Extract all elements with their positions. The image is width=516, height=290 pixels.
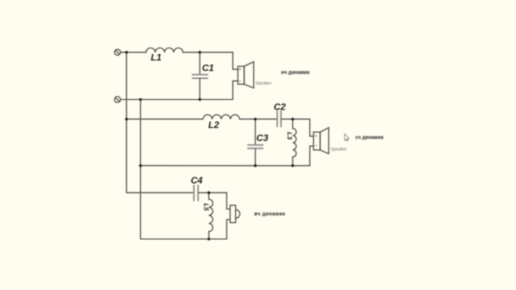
node minus feed bbox=[139, 98, 142, 101]
node C3 bottom bbox=[254, 164, 257, 167]
capacitor C2 bbox=[277, 111, 281, 127]
wire L1 to speaker branch bbox=[183, 51, 233, 53]
node middle bottom left bbox=[139, 164, 142, 167]
wire speaker2 bottom stub bbox=[310, 146, 314, 166]
terminal input - bbox=[115, 97, 121, 103]
svg-text:нч динамик: нч динамик bbox=[281, 70, 310, 76]
node L5 bottom bbox=[207, 238, 210, 241]
svg-text:L2: L2 bbox=[208, 120, 220, 130]
capacitor C1 bbox=[193, 52, 208, 99]
wire vertical feed plus bbox=[126, 52, 128, 192]
wire vertical feed minus bbox=[140, 100, 142, 240]
svg-text:C2: C2 bbox=[274, 102, 287, 112]
svg-text:C4: C4 bbox=[191, 175, 204, 185]
wire terminal1 to L1 bbox=[121, 51, 146, 53]
inductor L3 bbox=[293, 119, 297, 166]
wire C4 to tweeter corner bbox=[198, 193, 230, 209]
node C3 top bbox=[254, 118, 257, 121]
svg-text:вч динамик: вч динамик bbox=[254, 212, 285, 218]
inductor L1 bbox=[146, 48, 183, 52]
node C1 top bbox=[198, 51, 201, 54]
wire speaker1 bottom stub bbox=[233, 81, 238, 100]
capacitor C4 bbox=[194, 185, 198, 200]
node L3 top bbox=[291, 118, 294, 121]
svg-text:L3: L3 bbox=[286, 132, 293, 140]
wire L3 node to speaker2 bbox=[293, 119, 314, 136]
node C1 bottom bbox=[198, 98, 201, 101]
wire C2 to L3 node bbox=[281, 118, 293, 120]
tweeter LS3 bbox=[230, 205, 240, 222]
svg-text:Speaker: Speaker bbox=[256, 80, 273, 85]
terminal input + bbox=[115, 49, 121, 55]
svg-text:L1: L1 bbox=[151, 53, 162, 63]
capacitor C3 bbox=[248, 119, 263, 166]
node middle top left bbox=[125, 118, 128, 121]
inductor L5 bbox=[209, 193, 213, 239]
node L3 bottom bbox=[291, 164, 294, 167]
small annotation text bbox=[256, 80, 348, 151]
speaker LS1 bbox=[238, 62, 254, 88]
wire bottom section top rail bbox=[127, 192, 194, 194]
svg-text:Speaker: Speaker bbox=[331, 147, 348, 152]
mouse cursor bbox=[345, 134, 349, 141]
wire bottom rail top section bbox=[121, 99, 233, 101]
svg-text:L5: L5 bbox=[202, 203, 209, 211]
wire middle top rail bbox=[127, 118, 204, 120]
wire bottom section bottom rail bbox=[141, 238, 227, 240]
svg-text:C1: C1 bbox=[202, 63, 214, 73]
node L5 top bbox=[207, 191, 210, 194]
node J1 top left bbox=[125, 51, 128, 54]
svg-text:C3: C3 bbox=[256, 133, 269, 143]
speaker LS2 bbox=[314, 128, 329, 154]
wire top right corner down to speaker1 bbox=[233, 52, 238, 69]
component labels bbox=[151, 53, 293, 212]
wire middle bottom rail bbox=[141, 165, 310, 167]
junction node dots bbox=[125, 51, 294, 241]
svg-text:сч динамик: сч динамик bbox=[355, 135, 384, 141]
inductor L2 bbox=[203, 115, 240, 119]
wire tweeter bottom stub bbox=[227, 220, 230, 240]
wire L2 to C2 bbox=[240, 118, 278, 120]
